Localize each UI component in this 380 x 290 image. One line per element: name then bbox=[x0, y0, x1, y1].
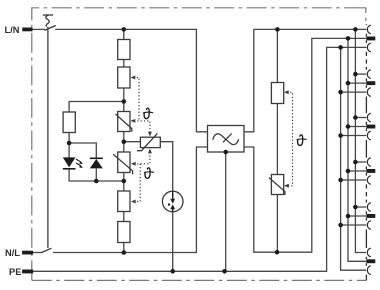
wire socket4 L bbox=[355, 161, 366, 163]
node N-busB bbox=[346, 36, 351, 41]
node column-LED2 bbox=[122, 179, 127, 184]
resistor R5 bbox=[271, 83, 283, 104]
socket2 PE contact bbox=[367, 88, 370, 97]
strip segments bbox=[365, 24, 367, 280]
socket1 N terminal bbox=[366, 37, 375, 41]
wire socket5 PE bbox=[341, 224, 367, 226]
wire filter L out bbox=[244, 29, 366, 131]
varistor V3 bbox=[118, 152, 130, 173]
arrowhead to V4 bbox=[284, 184, 289, 188]
node s2PE bbox=[338, 90, 343, 95]
theta 1 bbox=[144, 108, 153, 118]
svg-text:PE: PE bbox=[9, 267, 21, 277]
socket4 L contact bbox=[367, 158, 370, 167]
terminal N/L bbox=[22, 251, 33, 255]
node column-V2 bbox=[122, 139, 127, 144]
thermal disconnect F1 top bar bbox=[43, 14, 53, 16]
resistor R4 bbox=[118, 222, 130, 243]
terminal L/N bbox=[22, 28, 32, 32]
wire socket2 PE bbox=[341, 91, 367, 93]
socket strip bbox=[366, 24, 370, 280]
varistor V4 bbox=[271, 175, 283, 195]
wire filter mid to PE bbox=[225, 152, 227, 271]
node PE-busC bbox=[338, 45, 343, 50]
gas discharge tube bbox=[162, 191, 183, 212]
resistor R3 bbox=[118, 191, 130, 212]
resistor R6 LED series bbox=[63, 112, 75, 133]
node L/N-R5 bbox=[275, 27, 280, 32]
socket5 PE contact bbox=[367, 221, 370, 230]
node s5L bbox=[353, 205, 358, 210]
strip dashed gaps bbox=[365, 52, 367, 203]
svg-text:N/L: N/L bbox=[5, 248, 20, 258]
wire LED branch mid bbox=[69, 133, 96, 159]
arrowhead to V3 bbox=[131, 162, 136, 166]
svg-text:L/N: L/N bbox=[5, 25, 20, 35]
arrowhead to V1 bbox=[131, 119, 136, 123]
node filter-PE-line bbox=[222, 269, 227, 274]
node column-LED bbox=[122, 99, 127, 104]
bus C sockets PE bbox=[341, 47, 366, 270]
node diode bottom bbox=[94, 179, 99, 184]
wire socket5 N bbox=[348, 215, 366, 217]
bus A sockets L bbox=[355, 29, 366, 252]
wire socket2 L bbox=[355, 73, 366, 75]
node s4PE bbox=[338, 178, 343, 183]
resistor R1 bbox=[118, 40, 130, 60]
LED D1 triangle bbox=[63, 157, 76, 167]
wire R5 branch bbox=[276, 29, 278, 252]
wire N/L to filter bbox=[53, 147, 208, 253]
node s3L bbox=[353, 115, 358, 120]
node N-R5 bbox=[275, 250, 280, 255]
socket3 PE contact bbox=[367, 131, 370, 140]
node L/N-column bbox=[122, 27, 127, 32]
node s3PE bbox=[338, 133, 343, 138]
socket5 N terminal bbox=[366, 214, 375, 218]
socket6 L contact bbox=[367, 248, 370, 257]
arrowhead to R3 bbox=[131, 200, 136, 204]
node L/N-busA bbox=[353, 27, 358, 32]
bus B sockets N bbox=[348, 38, 366, 261]
wire socket4 N bbox=[348, 170, 366, 172]
gas discharge tube arrows bbox=[168, 191, 175, 211]
node filter PE bbox=[223, 150, 228, 155]
thermal dotted links bbox=[134, 78, 293, 202]
arrowhead to V2 top bbox=[148, 132, 152, 137]
wire socket4 PE bbox=[341, 179, 367, 181]
arrowhead to R2 bbox=[131, 76, 136, 80]
socket5 L contact bbox=[367, 203, 370, 212]
node LED top bbox=[67, 141, 72, 146]
node GDT-PE bbox=[170, 269, 175, 274]
socket3 N terminal bbox=[366, 125, 375, 129]
socket6 PE contact bbox=[367, 266, 370, 275]
theta 2 bbox=[144, 168, 153, 178]
wire N/L input bbox=[33, 252, 42, 254]
filter sine symbol bbox=[213, 134, 239, 145]
wire socket3 PE bbox=[341, 135, 367, 137]
node s4L bbox=[353, 160, 358, 165]
node s2N bbox=[346, 81, 351, 86]
wire main column bbox=[123, 29, 125, 252]
terminal PE bbox=[22, 270, 33, 274]
arrowhead to V2 bottom bbox=[148, 149, 152, 154]
LED emission arrows bbox=[76, 159, 83, 168]
switch blade N/L bbox=[41, 248, 51, 252]
wire L/N input bbox=[33, 28, 46, 30]
socket1 L contact bbox=[367, 25, 370, 34]
dotted V2-V3-R3 bbox=[134, 152, 150, 201]
wire LED branch top bbox=[69, 102, 124, 113]
varistor V1 bbox=[118, 112, 130, 132]
varistor V2 horizontal bbox=[140, 137, 160, 147]
wire socket2 N bbox=[348, 82, 366, 84]
arrowhead to R5 bbox=[284, 90, 289, 94]
node column-N/L bbox=[122, 250, 127, 255]
socket1 PE contact bbox=[367, 43, 370, 52]
filter slash bbox=[223, 134, 232, 143]
switch blade L/N bbox=[45, 26, 56, 31]
enclosure border bottom bbox=[32, 279, 367, 281]
resistor R2 bbox=[118, 67, 130, 88]
wire L/N to filter bbox=[55, 29, 207, 131]
socket2 N terminal bbox=[366, 81, 375, 85]
wire socket3 N bbox=[348, 126, 366, 128]
wire V2 branch bbox=[124, 142, 173, 192]
node s2L bbox=[353, 72, 358, 77]
socket3 L contact bbox=[367, 113, 370, 122]
dotted R5-V4 bbox=[287, 92, 293, 186]
gas dot bbox=[168, 203, 170, 205]
wire GDT to PE bbox=[172, 212, 174, 272]
wire socket5 L bbox=[355, 206, 366, 208]
theta 3 bbox=[297, 135, 306, 145]
node s4N bbox=[346, 169, 351, 174]
enclosure border top bbox=[32, 8, 351, 281]
socket2 L contact bbox=[367, 70, 370, 79]
filter box bbox=[208, 126, 245, 153]
socket4 N terminal bbox=[366, 169, 375, 173]
diode D2 triangle bbox=[90, 159, 103, 168]
LED D1 cathode bar bbox=[63, 168, 76, 170]
wire socket3 L bbox=[355, 117, 366, 119]
dotted R2-V1-V2 bbox=[134, 78, 150, 133]
wire LED branch bottom bbox=[69, 169, 124, 181]
node s5N bbox=[346, 214, 351, 219]
diode D2 cathode bar bbox=[90, 157, 103, 159]
thermal disconnect F1 squiggle bbox=[46, 15, 49, 27]
wire filter N out bbox=[244, 38, 366, 252]
node s5PE bbox=[338, 223, 343, 228]
socket6 N terminal bbox=[366, 259, 375, 263]
switch linkage bbox=[47, 27, 49, 248]
socket4 PE contact bbox=[367, 176, 370, 185]
wire PE line bbox=[33, 47, 366, 271]
node s3N bbox=[346, 124, 351, 129]
